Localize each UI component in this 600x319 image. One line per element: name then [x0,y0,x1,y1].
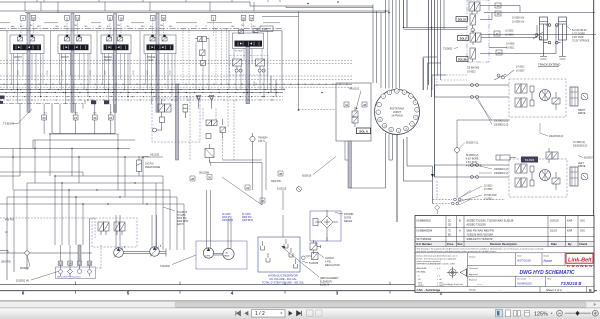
svg-text:65J0016: 65J0016 [302,175,312,178]
wire pump3 shaft [214,254,223,256]
check valve CV2 [209,96,214,109]
pump shaft line [123,249,166,257]
svg-text:Sheet 1 of 2: Sheet 1 of 2 [546,288,562,292]
svg-text:2C: 2C [448,219,451,222]
svg-text:65J0057: 65J0057 [20,267,30,270]
port circle left [25,251,29,255]
left return mesh [0,104,184,253]
svg-text:4/27/2018: 4/27/2018 [517,259,531,263]
dashed sub-enclosure corner [437,75,467,88]
svg-text:3000 PSI: 3000 PSI [271,180,281,183]
svg-text:1X 8516: 1X 8516 [505,34,514,36]
svg-text:3A8: 3A8 [231,25,234,28]
horizontal scrollbar track [0,301,600,308]
svg-text:8A8: 8A8 [141,25,144,28]
SOL 3B label box [457,57,469,62]
svg-text:A2C: A2C [20,25,24,28]
svg-text:24: 24 [250,16,254,20]
junction dots mid [12,133,143,157]
svg-text:11: 11 [108,16,111,20]
svg-text:1800 RPM: 1800 RPM [177,221,188,223]
svg-text:51J0038: 51J0038 [309,262,319,265]
svg-text:7: 7 [416,110,417,112]
svg-text:6: 6 [415,102,416,104]
svg-text:4B8: 4B8 [37,26,40,28]
svg-text:26 GPM: 26 GPM [222,214,231,216]
right drive motor [540,90,551,101]
svg-text:A2C: A2C [64,25,68,28]
tag box 48 [362,102,367,107]
track valve TV1 [469,2,480,14]
zoom slider [565,312,591,314]
wire segment rail y22.8 [0,22,280,24]
left edge cut-off fittings [0,96,5,99]
label 51J0084 spec [466,155,482,168]
SOL 3A label box [456,17,468,22]
revision row similar-to [417,238,493,241]
svg-text:36: 36 [208,176,212,180]
svg-text:B LI281 B: B LI281 B [177,212,188,214]
svg-text:SOL32: SOL32 [458,18,467,22]
svg-text:P2: P2 [195,26,197,28]
svg-text:23I099001 (2): 23I099001 (2) [494,169,509,171]
pressure reducing valve PRV [153,99,172,132]
svg-text:A2C: A2C [150,25,154,28]
svg-text:65J0057: 65J0057 [584,158,594,160]
relief filter diamond P3J0086 [313,210,338,241]
pilot dashed drop wires [21,20,252,85]
svg-text:22: 22 [88,262,92,266]
manifold relief cartridge 2 [104,100,109,104]
wire drain dashed links [433,181,506,204]
svg-text:Check: Check [579,242,588,246]
svg-text:28: 28 [191,177,195,181]
svg-text:18: 18 [119,16,123,20]
svg-text:TOTAL SYSTEM VOLUME - 392 GAL: TOTAL SYSTEM VOLUME - 392 GAL [262,282,305,285]
vertical feeder from bank to manifold [271,76,276,97]
leader replacement element [282,247,319,277]
label P3J0086 relief [344,213,354,223]
svg-text:JGC: JGC [580,219,585,222]
hose part numbers (vertical text) [18,70,257,86]
page view mode icon 4 [525,311,530,317]
svg-text:N1I8881020: N1I8881020 [517,282,532,286]
track disconnect fittings [494,32,543,80]
SOL 2 label box [458,36,469,41]
return row solid [0,84,352,92]
next view button (disabled) [316,310,323,317]
svg-text:WINCH: WINCH [61,57,69,59]
svg-text:43: 43 [93,116,97,120]
svg-text:2/20/19: 2/20/19 [550,219,559,222]
reservoir label [262,275,305,285]
tolerance block text [417,255,458,288]
tag box 20 [496,50,502,55]
svg-text:1X 9526 (2): 1X 9526 (2) [573,142,585,144]
title block background [415,216,594,293]
wire top rail 2 [0,11,389,13]
svg-text:N1I8880I020: N1I8880I020 [417,219,432,222]
dashed link to swing box [299,109,337,111]
return relief enclosure [310,211,341,241]
wire pump suction [116,215,157,248]
svg-text:23I099001 (2): 23I099001 (2) [494,173,509,175]
sheet right border [593,0,595,291]
svg-text:PA8: PA8 [160,24,163,27]
svg-text:T3J0035: T3J0035 [443,48,453,51]
svg-text:N4L0152: N4L0152 [349,88,360,91]
pump regulator valve 1 [98,222,109,235]
svg-text:4A8: 4A8 [11,25,14,28]
zone separator dash-dot line [0,28,282,30]
svg-text:8C: 8C [448,234,451,237]
svg-text:2B8: 2B8 [84,26,87,28]
wire branch y27.5 [404,28,468,30]
check valve CV1 [196,96,201,109]
solenoid valve SOL6 [352,107,358,127]
wire left port line [0,251,92,281]
svg-text:65J0057 (2): 65J0057 (2) [466,143,478,145]
right drive gearbox [570,87,578,106]
svg-text:1X 8526: 1X 8526 [506,44,515,46]
svg-text:1X 8511: 1X 8511 [506,47,515,49]
svg-text:SOL2: SOL2 [460,37,467,41]
vertical gray pipe runs [27,14,250,161]
svg-text:——: —— [476,284,483,287]
pump regulator valve 2 [114,222,125,235]
svg-text:21: 21 [74,116,78,120]
wire mid solid links [210,142,267,205]
svg-text:T3J0218 B: T3J0218 B [561,281,582,286]
pump control dashed enclosure [92,218,137,247]
third angle projection symbol [447,267,467,278]
svg-text:REFERENCE ANSI/ASME Y14.5M - 1: REFERENCE ANSI/ASME Y14.5M - 1994 [417,263,456,266]
svg-text:1X 8531: 1X 8531 [505,31,514,33]
zoom out button [557,310,563,316]
svg-text:1803 RPM: 1803 RPM [242,220,253,222]
swing brake valve box [336,83,371,141]
track valve TV3 [470,30,481,45]
proprietary legal note [417,248,544,254]
SOL 6 label box [357,128,371,134]
svg-text:Link-Belt: Link-Belt [568,257,592,263]
svg-text:1803 RPM: 1803 RPM [222,220,233,222]
wire below rotating joint [386,133,393,188]
svg-text:3: 3 [336,291,339,296]
svg-text:SOL3B: SOL3B [458,58,467,62]
zone numbers bottom [22,291,443,296]
svg-text:CO Level: CO Level [517,279,527,281]
travel speed port circle [455,148,460,153]
svg-text:25: 25 [242,16,246,20]
wire drain risers [438,0,445,80]
svg-text:.XXX: .XXX [418,283,423,285]
svg-text:05L0286: 05L0286 [199,171,210,175]
supply bus line [0,31,282,90]
svg-text:13: 13 [76,16,80,20]
svg-text:TRACK EXTEND: TRACK EXTEND [538,63,560,67]
svg-text:Third Angle Projection: Third Angle Projection [443,283,463,286]
svg-text:23 HM 1002: 23 HM 1002 [484,195,497,197]
accumulator 100 PSI [137,156,142,176]
first page button [236,311,241,316]
svg-text:T3J0436: T3J0436 [160,265,170,268]
junction node dots top [307,1,432,28]
svg-text:2D: 2D [448,223,451,226]
svg-text:WINCH: WINCH [14,57,22,59]
svg-text:Drawn: Drawn [469,256,476,259]
svg-text:32: 32 [261,199,265,203]
gauge circle [297,187,302,192]
sheet inner bottom border [0,284,594,286]
leader lower drain [456,186,482,205]
two speed valve [546,148,558,163]
scrollbar right arrow button [594,303,597,306]
left drive brake circle [581,173,588,180]
section port drop wires [7,31,268,104]
valve section V5 swing [233,29,264,53]
viewer toolbar [0,308,600,319]
@PUMPS [92,171,354,287]
left drive motor [540,170,551,181]
svg-text:CAD – Solid Edge: CAD – Solid Edge [417,288,441,292]
svg-text:PA8: PA8 [117,24,120,27]
wire right drive feed lines [435,85,510,97]
svg-text:6: 6 [22,291,25,296]
svg-text:125%: 125% [534,311,548,317]
svg-text:± 1°: ± 1° [437,268,441,270]
left drive dashed enclosure [509,159,567,197]
svg-text:48: 48 [363,103,367,107]
svg-text:23I 964 900: 23I 964 900 [467,68,480,70]
@TITLEBLOCK [415,216,594,293]
svg-text:4.00" BORE: 4.00" BORE [466,159,479,161]
svg-text:11: 11 [398,130,400,132]
revision table header [417,242,588,246]
wire manifold cross links [0,134,163,157]
svg-text:2/1/19: 2/1/19 [550,230,558,233]
svg-text:23I399001 (2): 23I399001 (2) [494,121,509,123]
svg-text:4: 4 [404,92,405,94]
svg-text:1X 8536 (A): 1X 8536 (A) [512,20,524,23]
wire left drive feed lines [435,165,510,177]
svg-text:and details contained herein i: and details contained herein is prohibit… [417,250,497,253]
wire return row 172 [0,172,83,176]
svg-text:51PM: 51PM [205,256,211,258]
rotating joint ports [376,89,419,133]
revision row B [417,219,586,226]
svg-text:1X 8537: 1X 8537 [516,70,525,72]
svg-text:1: 1 [383,96,384,98]
page view mode icon 1 (active) [496,310,503,317]
svg-text:3: 3 [396,91,397,93]
tag box 17 [494,31,500,36]
svg-text:Date: Date [551,242,557,246]
svg-text:1X 8512: 1X 8512 [516,67,525,69]
svg-text:8: 8 [415,117,416,119]
54L0806 block [521,157,538,163]
svg-text:TRAVEL: TRAVEL [147,56,156,59]
svg-text:1X 8512: 1X 8512 [484,186,493,188]
leader diagonal 05L0286 [222,177,262,205]
wire travel speed [457,120,510,198]
@RIGHTSIDE [423,0,596,214]
svg-text:5000 PSI: 5000 PSI [177,218,187,220]
wire bundle to rotating joint [373,0,400,89]
svg-text:TRAVEL: TRAVEL [104,56,113,59]
leader pump spec 1 [163,207,175,211]
breather regulator valve [310,240,321,254]
svg-text:1X 8537: 1X 8537 [484,189,493,191]
svg-text:44: 44 [345,103,349,107]
pump spec label 2 [222,214,233,222]
svg-text:DWG HYD SCHEMATIC: DWG HYD SCHEMATIC [520,270,575,276]
pilot valve B below V5 [256,59,266,72]
wire swing brake drops [345,141,386,188]
test port tags [58,261,92,265]
previous page button [244,311,248,316]
page number input box [252,310,286,317]
pilot valve A below V5 [233,59,243,72]
solenoid tag box top [260,26,273,31]
svg-text:Revision Description: Revision Description [490,242,517,246]
thermal valve TWN524 [250,133,268,147]
replacement element label [320,277,339,287]
svg-text:1X 8515: 1X 8515 [484,199,493,201]
wire manifold drops [44,100,111,134]
svg-text:LEFT: LEFT [148,60,154,62]
svg-text:14: 14 [379,119,381,121]
accumulator symbol [183,105,188,119]
svg-text:PRECHARGE: PRECHARGE [145,166,161,169]
return line valve [302,253,318,260]
Link-Belt logo [566,254,593,269]
svg-text:9: 9 [412,124,413,126]
svg-text:14 PASS: 14 PASS [391,114,403,118]
svg-text:→ 400 PSI: → 400 PSI [2,219,14,222]
svg-text:1X 8534 (A): 1X 8534 (A) [512,17,524,20]
svg-text:51J0084 (2): 51J0084 (2) [466,155,478,157]
svg-text:23U0071B (2): 23U0071B (2) [549,136,564,138]
valve section V1 WINCH 1 [10,35,44,62]
dashed drain row low [0,218,95,238]
solenoid valve cluster [206,119,226,139]
right drive counterbalance valve [515,84,534,107]
aux pump enclosure [196,241,247,269]
svg-text:PA8: PA8 [241,24,244,27]
svg-text:10: 10 [405,128,407,130]
svg-text:JGC: JGC [580,230,585,233]
svg-text:14: 14 [496,4,500,8]
manifold relief cartridge 1 [91,100,96,104]
tag box 14 [495,3,501,8]
svg-text:54L0806: 54L0806 [525,159,535,162]
svg-text:RELIEF: RELIEF [344,220,353,223]
cylinder spec label [572,29,590,43]
swing feed gray bar [348,141,351,188]
svg-text:1 / 2: 1 / 2 [255,311,265,317]
svg-text:34: 34 [246,186,250,190]
test port gray bar [78,245,81,261]
previous view button (disabled) [307,310,314,317]
track extend cylinder CYL2 [555,17,566,56]
svg-text:3B8: 3B8 [252,26,255,28]
wire top rail 1 [0,2,373,8]
svg-text:5000 PSI WAS 4800 PSI: 5000 PSI WAS 4800 PSI [467,230,495,233]
svg-text:Zone: Zone [447,242,454,246]
track extend cylinder CYL1 [540,17,551,56]
svg-text:Approval: Approval [469,273,478,276]
svg-text:51J0015: 51J0015 [277,188,287,191]
track valve TV2 [470,14,484,32]
svg-text:Checked: Checked [469,268,478,270]
leader 52J0532 [31,272,58,281]
leader line T3J0000 [18,109,32,124]
valve section V3 TRAVEL RIGHT [101,35,131,62]
svg-text:20: 20 [497,51,501,55]
svg-text:SOL 6: SOL 6 [359,129,368,133]
main pump P1 [114,246,126,257]
zoom in button [592,310,598,316]
main pump P2 [150,245,162,256]
track valve TV4 [470,48,484,62]
left drive counterbalance valve [515,164,534,187]
scrollbar thumb [175,302,586,307]
test port manifold box [56,267,96,279]
svg-text:ANGULAR:: ANGULAR: [417,267,428,270]
svg-text:DECIMAL:: DECIMAL: [417,271,427,274]
svg-text:This drawing is the property o: This drawing is the property of Link-Bel… [417,248,544,251]
svg-text:A2C: A2C [107,25,111,28]
wire rail risers [25,2,299,110]
wire right-edge feed [423,35,596,91]
svg-text:79 GPM: 79 GPM [177,215,186,217]
speed select cylinder [496,155,516,160]
sheet outer bottom border [0,290,597,292]
svg-text:51J0149: 51J0149 [320,284,330,287]
svg-text:5: 5 [410,96,411,98]
junction dot rows on return rails [2,84,348,100]
svg-text:20: 20 [32,16,36,20]
pump spec label 1 [177,212,188,226]
relief diamond right [435,205,440,214]
svg-text:T3J0000: T3J0000 [3,122,14,126]
svg-text:2: 2 [389,92,390,94]
left drive shuttle [552,172,560,190]
svg-text:REGULATOR: REGULATOR [325,264,340,267]
svg-text:E: E [589,288,592,293]
leader 65J0057 [27,255,30,266]
svg-text:16: 16 [68,262,72,266]
disconnects left drive [471,164,479,179]
svg-text:1X 8515: 1X 8515 [467,71,476,73]
junction dots on manifold [17,89,323,101]
svg-text:79.25" STROKE: 79.25" STROKE [572,40,590,43]
pilot filter 05L0286 [199,144,214,175]
svg-text:17: 17 [495,32,499,36]
manifold tag boxes row [42,115,114,120]
svg-text:26: 26 [162,16,166,20]
label 34J1827 regulator [325,257,340,267]
tag box 15 [495,11,501,16]
page view mode icon 3 [514,311,517,317]
tag boxes pump row [190,171,283,203]
svg-text:3000 PSI: 3000 PSI [222,217,232,219]
svg-text:.XXXX: .XXXX [418,285,425,287]
staircase corner wires [423,57,446,90]
svg-text:1PM: 1PM [74,113,78,115]
manifold dash-dot branch [0,104,83,110]
